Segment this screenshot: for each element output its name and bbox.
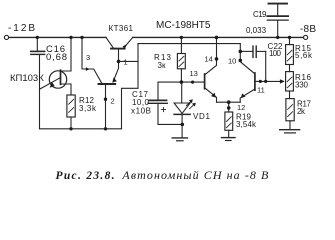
arrow VT3 emitter (112, 77, 117, 82)
capacitor C16 (36, 37, 38, 51)
svg-text:КТ361: КТ361 (109, 24, 134, 33)
svg-text:3,3k: 3,3k (79, 104, 97, 113)
svg-text:330: 330 (295, 81, 309, 90)
junction R13 VD1 node (180, 80, 184, 84)
junction C17 VD1 (181, 123, 185, 127)
node pin 14 (215, 57, 219, 61)
svg-text:10,0: 10,0 (132, 98, 150, 107)
svg-text:х10В: х10В (131, 107, 151, 116)
capacitor C17 (149, 99, 166, 101)
node 2 (104, 98, 107, 101)
transistor VT1 KP103K (49, 71, 66, 88)
junction R15 top (288, 36, 291, 39)
resistor R15 (289, 37, 291, 44)
capacitor C19 (269, 3, 288, 5)
resistor R13 (180, 37, 182, 53)
wire node 13 (158, 81, 205, 83)
svg-text:МС-198НТ5: МС-198НТ5 (156, 20, 211, 31)
junction R12 bottom (69, 127, 72, 130)
arrow U1a emitter (211, 93, 216, 98)
arrow VD1 light 2 (192, 103, 196, 107)
svg-text:0,68: 0,68 (46, 52, 67, 63)
wire node 2 vertical (105, 85, 107, 129)
node pin 13 (191, 81, 194, 84)
junction C22 pin 10 (239, 50, 243, 54)
junction C22 pin 11 wire (264, 80, 267, 83)
arrow VT3 collector blob (86, 67, 90, 71)
svg-text:14: 14 (205, 55, 213, 64)
arrow VD1 light 1 (189, 99, 193, 103)
plus mark C17 (161, 108, 165, 112)
junction VT3 collector tap (80, 36, 83, 39)
capacitor C22 (240, 50, 252, 52)
svg-text:КП103К: КП103К (10, 73, 44, 84)
svg-text:3к: 3к (158, 61, 166, 70)
resistor R12 (67, 95, 75, 117)
svg-text:-12В: -12В (8, 23, 35, 34)
transistor U1a pins 13 14 12 (204, 74, 206, 89)
wire bottom left rail (40, 128, 122, 130)
ground under R17 (280, 129, 300, 131)
svg-text:3: 3 (86, 53, 90, 62)
wire node 1 link (119, 60, 139, 62)
junction node 2 bottom (104, 127, 107, 130)
junction pin 14 rail (215, 36, 219, 40)
junction emitter bus R19 (227, 100, 231, 104)
junction R13 top (180, 36, 183, 39)
wire left top rail (9, 36, 106, 38)
transistor U1b pins 11 10 12 (254, 73, 256, 90)
svg-text:Автономный СН на -8 В: Автономный СН на -8 В (121, 168, 269, 182)
svg-text:11: 11 (257, 86, 265, 95)
junction C19 bottom (276, 36, 279, 39)
wire pin 11 base (255, 80, 283, 82)
svg-text:VD1: VD1 (193, 112, 211, 121)
svg-text:10: 10 (228, 56, 236, 65)
svg-text:100: 100 (269, 49, 282, 58)
svg-text:С19: С19 (253, 10, 267, 19)
svg-text:0,033: 0,033 (246, 26, 267, 35)
transistor VT3 KT361 lower (99, 83, 116, 85)
transistor VT2 KT361 upper (111, 48, 125, 50)
resistor R16 trimmer (286, 72, 294, 91)
svg-text:-8В: -8В (300, 24, 316, 35)
svg-text:3,54k: 3,54k (236, 120, 257, 129)
svg-text:5,6k: 5,6k (295, 51, 313, 60)
arrow R16 wiper (280, 79, 285, 83)
ground under VD1 (172, 137, 187, 139)
svg-text:12: 12 (237, 103, 245, 112)
svg-text:Рис. 23.8.: Рис. 23.8. (56, 170, 115, 182)
terminal -8V output (304, 35, 308, 39)
svg-text:13: 13 (190, 69, 198, 78)
ground under R19 (222, 137, 236, 139)
arrow U1b emitter (241, 93, 246, 98)
svg-text:2k: 2k (297, 107, 306, 116)
resistor R19 (228, 102, 230, 112)
wire right top rail (133, 36, 304, 38)
junction VT1 drain tap (69, 36, 72, 39)
terminal -12V input (4, 35, 8, 39)
caption (56, 168, 270, 182)
node 1 (117, 60, 121, 64)
arrow VT2 emitter (123, 44, 128, 48)
resistor R17 (286, 99, 294, 121)
arrows emitters and gate (50, 44, 285, 106)
svg-text:2: 2 (111, 97, 115, 106)
node pin 10 (239, 59, 243, 63)
wire emitter bus (217, 101, 241, 103)
node pin 11 (259, 80, 262, 83)
node pin 12 (227, 106, 231, 110)
wire drive bus top (138, 44, 240, 52)
svg-text:1: 1 (124, 58, 128, 67)
LED VD1 (181, 82, 183, 103)
junction C16 tap (36, 36, 39, 39)
arrow VT1 gate (50, 82, 55, 88)
